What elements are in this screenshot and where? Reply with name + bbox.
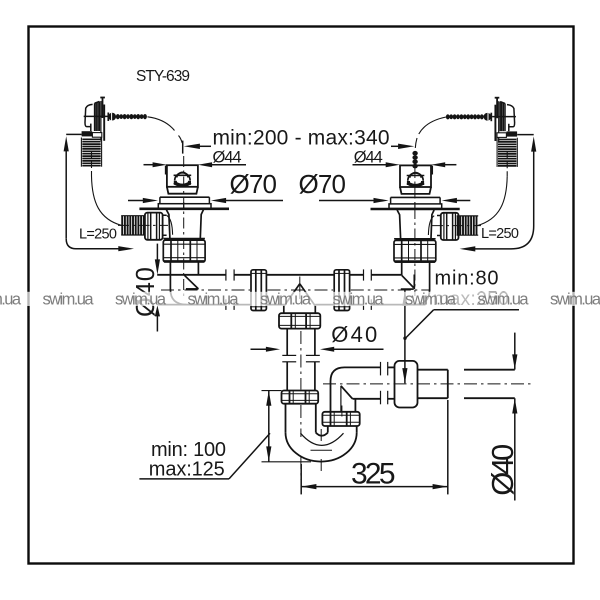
svg-text:min:200 - max:340: min:200 - max:340 [213,126,390,149]
pipe break ticks right [364,269,372,310]
right outlet centerline [432,225,481,227]
right drain hex nut [394,240,436,262]
left dimension Ø70 [128,169,283,203]
right drain body [394,210,436,239]
svg-text:swim.ua: swim.ua [43,290,95,308]
vertical pipe centerline [300,331,302,480]
left threaded nipple [118,216,168,235]
outlet pipe centerline [323,383,531,385]
trap outlet tube centerline [341,406,343,421]
left overflow head assembly [84,97,108,141]
svg-text:max:125: max:125 [149,458,225,480]
trap outlet elbow [331,367,356,411]
outlet pipe after wall flange [323,370,531,399]
left sink bottom line [139,208,229,211]
svg-text:STY-639: STY-639 [136,68,190,85]
watermark texts swim.ua [0,290,600,308]
svg-text:325: 325 [351,457,396,490]
svg-text:Ø44: Ø44 [354,149,383,167]
right threaded nipple [432,216,481,235]
left drain hex nut [163,240,205,262]
right plug box [400,165,431,194]
outlet pipe break ticks [381,362,388,404]
svg-text:L=250: L=250 [481,226,519,242]
left dimension Ø44 [144,149,247,175]
horizontal connecting pipe [157,269,430,310]
svg-text:Ø40: Ø40 [331,322,377,347]
watermark band [0,292,600,306]
svg-text:Ø70: Ø70 [299,169,347,199]
pin cap right [495,97,500,99]
right sink flange [371,197,460,209]
dimension Ø40 right (rotated) [485,333,520,501]
svg-text:min:80: min:80 [435,268,499,290]
right pipe union nut [334,270,349,311]
central tee body [284,277,316,314]
tee compression nut [279,313,320,328]
right overflow corrugated hose [477,131,517,225]
svg-text:Ø70: Ø70 [230,169,278,199]
dimension L=250 left leader [64,134,134,251]
svg-text:swim.ua: swim.ua [115,290,167,308]
right chain ball and beads [412,113,491,169]
svg-text:swim.ua: swim.ua [405,290,457,308]
svg-text:L=250: L=250 [79,227,117,243]
vertical tee outlet pipe [282,329,320,480]
svg-text:swim.ua: swim.ua [188,290,240,308]
right side outlet nut [437,213,459,240]
svg-text:Ø44: Ø44 [213,149,242,167]
right chain curve down to plug [419,117,446,134]
svg-text:swim.ua: swim.ua [333,290,385,308]
vertical pipe break ticks [282,355,320,361]
tee centerline cross [299,277,301,300]
left pipe union nut [251,270,266,311]
right plug knob [408,173,423,181]
svg-text:swim.ua: swim.ua [478,290,530,308]
svg-text:swim.ua: swim.ua [0,290,22,308]
left overflow corrugated hose [81,131,121,225]
left plug box [167,165,198,194]
outlet pipe to wall [345,362,395,404]
trap U-bend [286,404,357,471]
bracket plates [94,103,96,131]
left drain body [163,210,205,239]
right dimension Ø44 [353,149,457,175]
dimension min:80 [402,268,519,384]
pipe top edge [157,274,401,276]
right drain centerline [414,167,416,296]
right chain hanging beads [412,151,417,169]
dimension L=250 right leader [460,135,537,252]
pivot line [84,115,108,117]
trap outlet nut [322,412,359,426]
left side outlet nut [145,213,167,240]
pipe break ticks left [226,269,234,310]
cam lever profile [85,104,93,126]
dimension min:200 - max:340 [183,126,415,153]
wall flange bushing [395,361,418,408]
dimension min:100 max:125 [139,391,311,481]
left outlet centerline [118,224,168,226]
U-bend centerline marks [311,449,333,451]
pipe bottom edge [157,304,425,306]
left plug knob [175,173,190,181]
dimension Ø40 middle [251,322,384,352]
right tailpipe and elbow [401,263,430,305]
left tailpipe and elbow [170,263,198,305]
chain curve to left plug [148,117,175,131]
svg-text:swim.ua: swim.ua [260,290,312,308]
hose centerline and route curve to side inlet [91,151,93,176]
left chain ball and beads [108,113,182,144]
trap inlet nut [282,391,319,404]
svg-text:swim.ua: swim.ua [550,290,600,308]
left sink flange [139,197,229,209]
dimension 325 [301,400,448,494]
left drain centerline [183,156,185,296]
dimension Ø40 left (rotated) [132,244,160,332]
right sink bottom line [371,208,460,211]
pipe centerline [161,289,430,291]
right dimension Ø70 [299,169,471,203]
pin cap [100,97,105,99]
right overflow head assembly [492,97,516,141]
